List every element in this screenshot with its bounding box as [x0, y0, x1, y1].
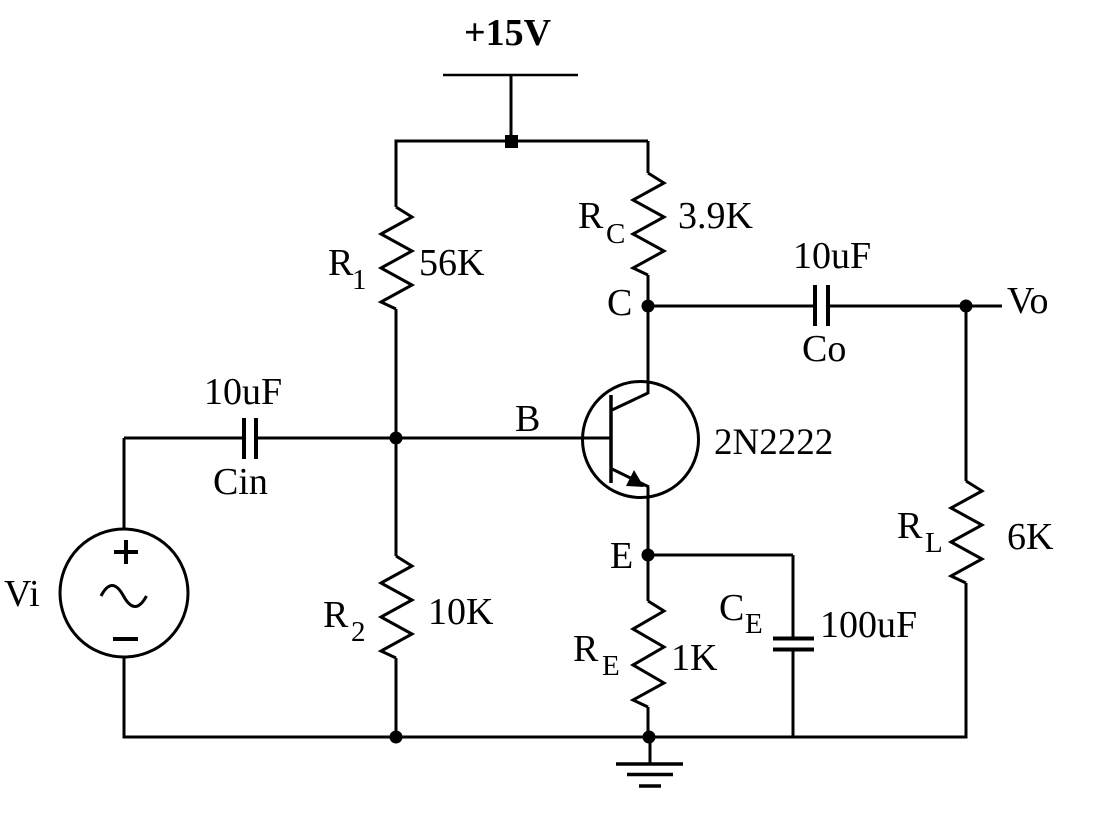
- svg-text:100uF: 100uF: [820, 604, 917, 646]
- svg-text:6K: 6K: [1007, 516, 1054, 558]
- power supply bar: [443, 74, 578, 77]
- svg-text:10K: 10K: [428, 591, 494, 633]
- wire RE bottom: [647, 707, 650, 737]
- transistor collector diagonal: [612, 393, 648, 410]
- svg-text:2N2222: 2N2222: [714, 422, 833, 463]
- wire collector top: [647, 306, 650, 394]
- source plus sign: [114, 550, 138, 554]
- capacitor Co 10uF: [813, 285, 817, 326]
- ground bar 2: [627, 773, 673, 777]
- svg-text:E: E: [610, 535, 633, 577]
- node E: [642, 549, 655, 562]
- wire input left vertical: [123, 438, 126, 530]
- ground bar 3: [639, 784, 661, 788]
- transistor emitter diagonal: [612, 469, 649, 487]
- transistor emitter arrowhead: [626, 470, 644, 487]
- capacitor CE 100uF: [773, 637, 814, 641]
- svg-text:Vi: Vi: [4, 573, 40, 615]
- svg-text:R: R: [573, 628, 599, 670]
- wire top rail: [396, 140, 648, 143]
- svg-text:10uF: 10uF: [793, 235, 871, 277]
- wire RC top: [647, 141, 650, 173]
- wire base: [396, 437, 611, 440]
- wire R1 top: [395, 140, 398, 208]
- node ground rail junction left: [390, 731, 403, 744]
- resistor RC 3.9K: [633, 173, 664, 275]
- svg-text:R: R: [328, 242, 354, 284]
- wire CE top: [792, 555, 795, 638]
- svg-text:C: C: [606, 218, 625, 250]
- svg-text:Co: Co: [802, 328, 846, 370]
- svg-text:56K: 56K: [419, 242, 485, 284]
- wire C node to Co: [648, 305, 815, 308]
- wire RC bottom to C node: [647, 275, 650, 306]
- node supply junction: [505, 135, 518, 148]
- svg-text:R: R: [323, 594, 349, 636]
- svg-text:1K: 1K: [671, 637, 718, 679]
- svg-text:Cin: Cin: [213, 461, 268, 503]
- svg-text:2: 2: [351, 616, 366, 648]
- wire input top to Cin: [124, 437, 244, 440]
- transistor base bar: [609, 395, 613, 483]
- ground bar 1: [616, 762, 683, 766]
- wire bottom rail: [124, 736, 966, 739]
- wire CE bottom: [792, 650, 795, 737]
- wire Vi bottom: [123, 656, 126, 739]
- resistor R1 56K: [381, 207, 412, 309]
- source Vi circle: [60, 529, 188, 657]
- wire RE top: [647, 555, 650, 601]
- svg-text:Vo: Vo: [1007, 280, 1049, 322]
- ground stub: [649, 737, 652, 764]
- wire emitter: [647, 487, 650, 555]
- capacitor Cin 10uF: [242, 418, 246, 459]
- node C: [642, 300, 655, 313]
- wire R2 top: [395, 438, 398, 556]
- wire RL bottom: [965, 583, 968, 739]
- source minus sign: [113, 637, 138, 641]
- wire R2 bottom: [395, 658, 398, 737]
- svg-text:E: E: [745, 608, 763, 640]
- svg-text:+15V: +15V: [464, 12, 552, 54]
- wire Cin to base node: [256, 437, 396, 440]
- svg-text:C: C: [719, 587, 744, 629]
- svg-text:R: R: [578, 195, 604, 237]
- svg-text:1: 1: [352, 264, 367, 296]
- wire E to CE branch: [648, 554, 793, 557]
- svg-text:R: R: [897, 505, 923, 547]
- svg-text:L: L: [925, 527, 943, 559]
- svg-text:10uF: 10uF: [204, 371, 282, 413]
- node ground junction: [643, 731, 656, 744]
- resistor R2 10K: [381, 556, 412, 658]
- wire Co to Vo: [828, 305, 1002, 308]
- svg-text:B: B: [515, 398, 540, 440]
- wire supply drop: [510, 75, 513, 141]
- transistor Q1 circle: [583, 382, 699, 498]
- source sine wave: [101, 586, 147, 607]
- node base junction: [390, 432, 403, 445]
- svg-text:E: E: [602, 650, 620, 682]
- wire R1 bottom to base node: [395, 309, 398, 438]
- resistor RL 6K: [951, 481, 982, 583]
- svg-text:3.9K: 3.9K: [678, 195, 754, 237]
- resistor RE 1K: [633, 601, 664, 707]
- node Vo: [960, 300, 973, 313]
- svg-text:C: C: [607, 282, 632, 324]
- wire RL top: [965, 306, 968, 481]
